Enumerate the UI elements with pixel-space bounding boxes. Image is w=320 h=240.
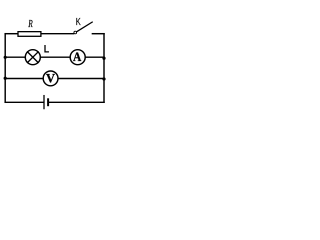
svg-text:L: L [44, 43, 50, 55]
svg-text:R: R [27, 19, 33, 30]
svg-text:A: A [73, 50, 81, 64]
svg-text:V: V [46, 71, 55, 85]
svg-text:K: K [76, 16, 81, 28]
